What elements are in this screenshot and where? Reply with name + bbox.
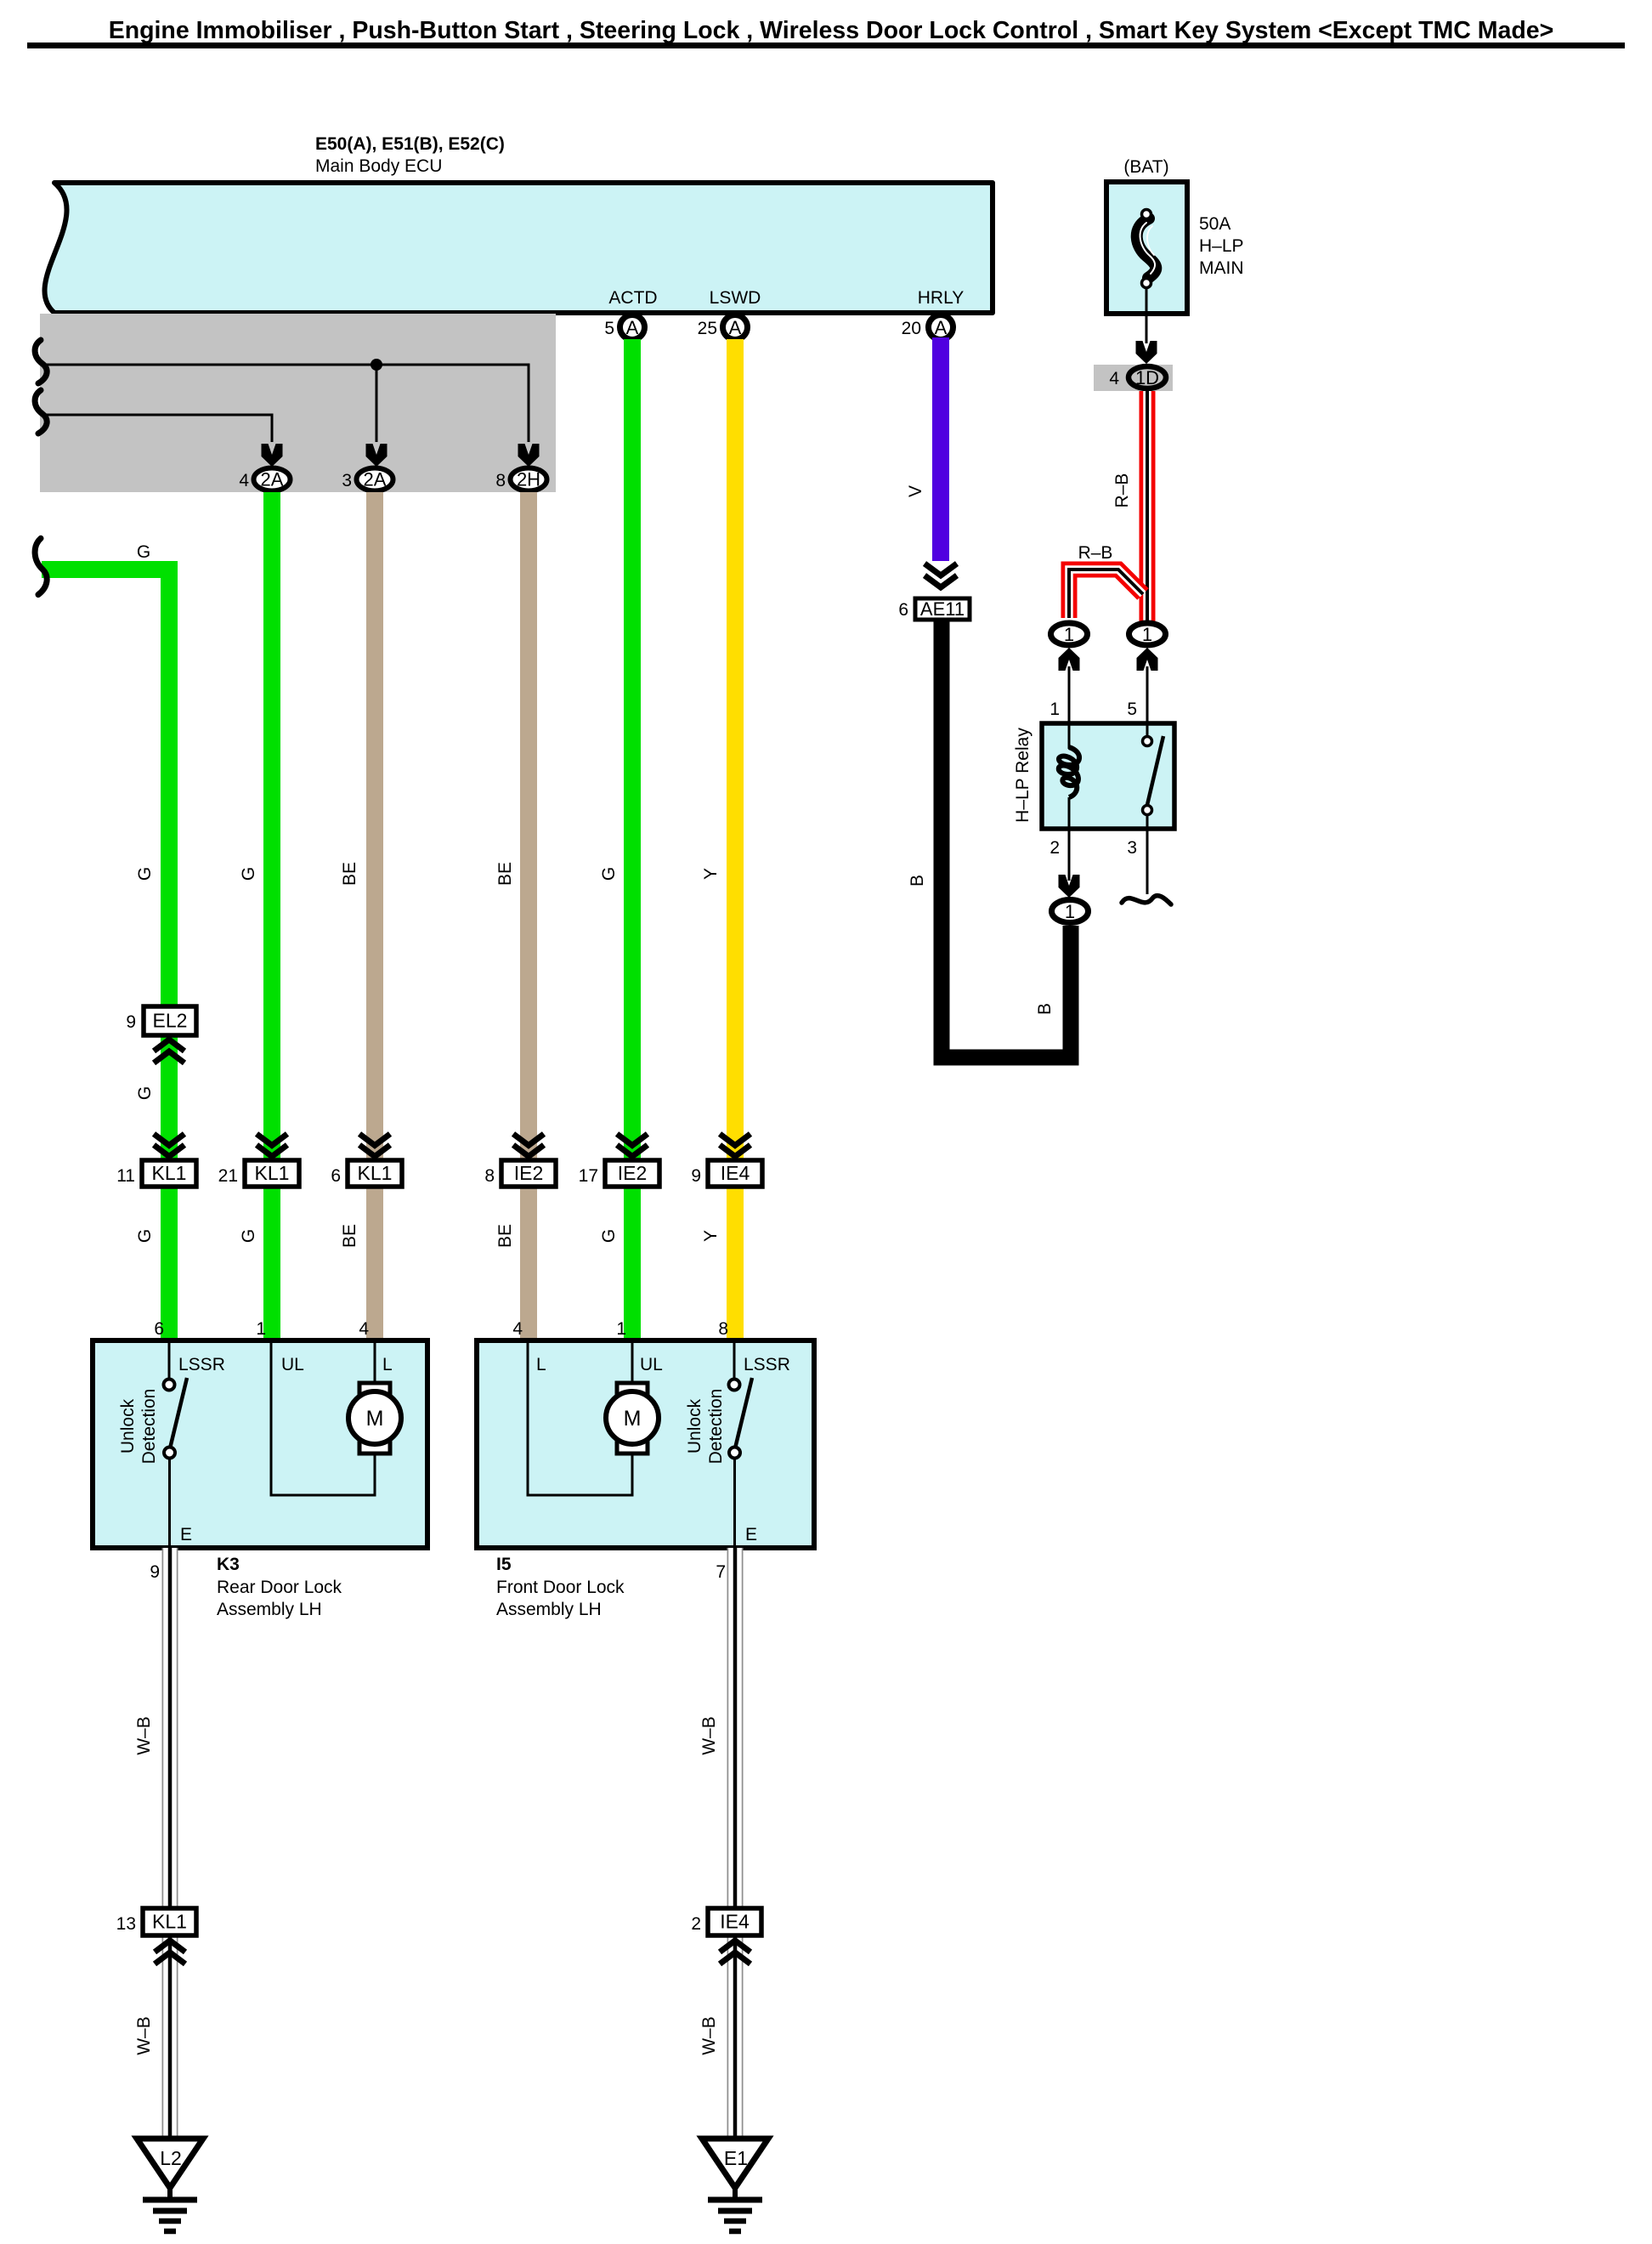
svg-text:UL: UL [640,1355,663,1374]
svg-text:17: 17 [579,1166,598,1186]
svg-text:E: E [745,1525,757,1544]
svg-text:KL1: KL1 [152,1162,187,1184]
svg-text:11: 11 [116,1166,135,1186]
svg-text:G: G [239,867,258,881]
svg-text:A: A [729,317,742,338]
svg-text:L2: L2 [160,2147,182,2169]
svg-text:4: 4 [359,1319,369,1339]
svg-text:IE2: IE2 [618,1162,648,1184]
svg-text:W–B: W–B [134,1716,154,1755]
svg-text:L: L [382,1355,393,1374]
svg-text:2A: 2A [364,469,387,490]
svg-text:G: G [135,1229,155,1243]
svg-text:6: 6 [154,1319,164,1339]
svg-text:G: G [135,1086,155,1100]
svg-text:G: G [239,1229,258,1243]
svg-text:B: B [1035,1003,1055,1015]
svg-text:W–B: W–B [699,1716,719,1755]
svg-text:(BAT): (BAT) [1123,157,1168,177]
svg-text:8: 8 [718,1319,728,1339]
svg-text:1: 1 [616,1319,626,1339]
svg-text:BE: BE [340,862,359,886]
svg-text:BE: BE [495,1224,515,1248]
svg-text:Detection: Detection [139,1389,159,1465]
svg-text:1: 1 [1049,700,1060,719]
svg-text:1: 1 [1142,624,1152,645]
svg-text:Detection: Detection [706,1389,726,1465]
svg-text:4: 4 [512,1319,523,1339]
svg-text:6: 6 [331,1166,341,1186]
svg-text:Assembly LH: Assembly LH [217,1600,322,1619]
svg-text:9: 9 [126,1012,136,1032]
svg-text:21: 21 [218,1166,238,1186]
svg-text:KL1: KL1 [255,1162,290,1184]
svg-text:G: G [599,867,619,881]
svg-text:W–B: W–B [134,2016,154,2055]
svg-text:Unlock: Unlock [685,1398,704,1453]
svg-text:3: 3 [1127,838,1137,858]
svg-text:2: 2 [691,1914,701,1934]
svg-text:50A: 50A [1199,214,1231,234]
svg-text:H–LP: H–LP [1199,236,1244,256]
svg-text:IE4: IE4 [721,1162,750,1184]
svg-text:BE: BE [340,1224,359,1248]
svg-text:B: B [908,875,927,887]
svg-text:8: 8 [484,1166,495,1186]
svg-text:1D: 1D [1135,367,1159,388]
svg-text:V: V [906,485,925,497]
svg-text:Y: Y [701,1230,721,1242]
svg-text:E1: E1 [724,2147,748,2169]
svg-text:LSWD: LSWD [710,288,761,308]
svg-text:R–B: R–B [1078,543,1113,563]
svg-text:Assembly LH: Assembly LH [496,1600,602,1619]
svg-text:M: M [366,1407,384,1431]
svg-text:Y: Y [701,868,721,880]
svg-text:20: 20 [902,319,921,338]
svg-text:3: 3 [342,471,352,490]
svg-text:I5: I5 [496,1555,512,1574]
svg-text:EL2: EL2 [153,1010,188,1032]
svg-text:25: 25 [698,319,717,338]
svg-text:Rear Door Lock: Rear Door Lock [217,1578,342,1597]
svg-text:9: 9 [691,1166,701,1186]
svg-text:9: 9 [150,1562,160,1582]
svg-text:UL: UL [281,1355,304,1374]
svg-text:Front Door Lock: Front Door Lock [496,1578,625,1597]
svg-text:M: M [624,1407,642,1431]
svg-text:5: 5 [1127,700,1137,719]
svg-text:G: G [599,1229,619,1243]
svg-text:BE: BE [495,862,515,886]
svg-text:7: 7 [716,1562,726,1582]
svg-text:4: 4 [1109,369,1119,388]
svg-text:IE4: IE4 [720,1911,750,1933]
svg-text:Main Body ECU: Main Body ECU [315,156,442,176]
svg-text:6: 6 [898,600,908,620]
svg-text:IE2: IE2 [514,1162,544,1184]
svg-text:LSSR: LSSR [744,1355,790,1374]
svg-text:ACTD: ACTD [608,288,657,308]
svg-text:R–B: R–B [1112,473,1132,508]
svg-text:Engine Immobiliser , Push-Butt: Engine Immobiliser , Push-Button Start ,… [109,17,1554,44]
svg-text:MAIN: MAIN [1199,258,1244,278]
svg-text:L: L [536,1355,546,1374]
svg-text:A: A [935,317,948,338]
svg-text:Unlock: Unlock [118,1398,138,1453]
svg-text:W–B: W–B [699,2016,719,2055]
svg-text:K3: K3 [217,1555,240,1574]
svg-text:2A: 2A [261,469,284,490]
svg-text:AE11: AE11 [920,598,965,620]
svg-text:8: 8 [495,471,506,490]
svg-text:G: G [137,542,150,562]
svg-text:13: 13 [116,1914,136,1934]
svg-text:E: E [180,1525,192,1544]
svg-text:4: 4 [239,471,249,490]
svg-text:KL1: KL1 [358,1162,393,1184]
svg-text:H–LP Relay: H–LP Relay [1013,728,1032,823]
svg-text:HRLY: HRLY [918,288,964,308]
svg-text:KL1: KL1 [152,1911,187,1933]
svg-text:1: 1 [256,1319,266,1339]
svg-text:5: 5 [604,319,614,338]
svg-text:1: 1 [1065,901,1075,922]
svg-text:2: 2 [1049,838,1060,858]
svg-text:LSSR: LSSR [178,1355,225,1374]
svg-text:G: G [135,867,155,881]
svg-text:A: A [626,317,639,338]
svg-text:E50(A), E51(B), E52(C): E50(A), E51(B), E52(C) [315,134,505,154]
svg-text:2H: 2H [517,469,540,490]
svg-text:1: 1 [1064,624,1074,645]
